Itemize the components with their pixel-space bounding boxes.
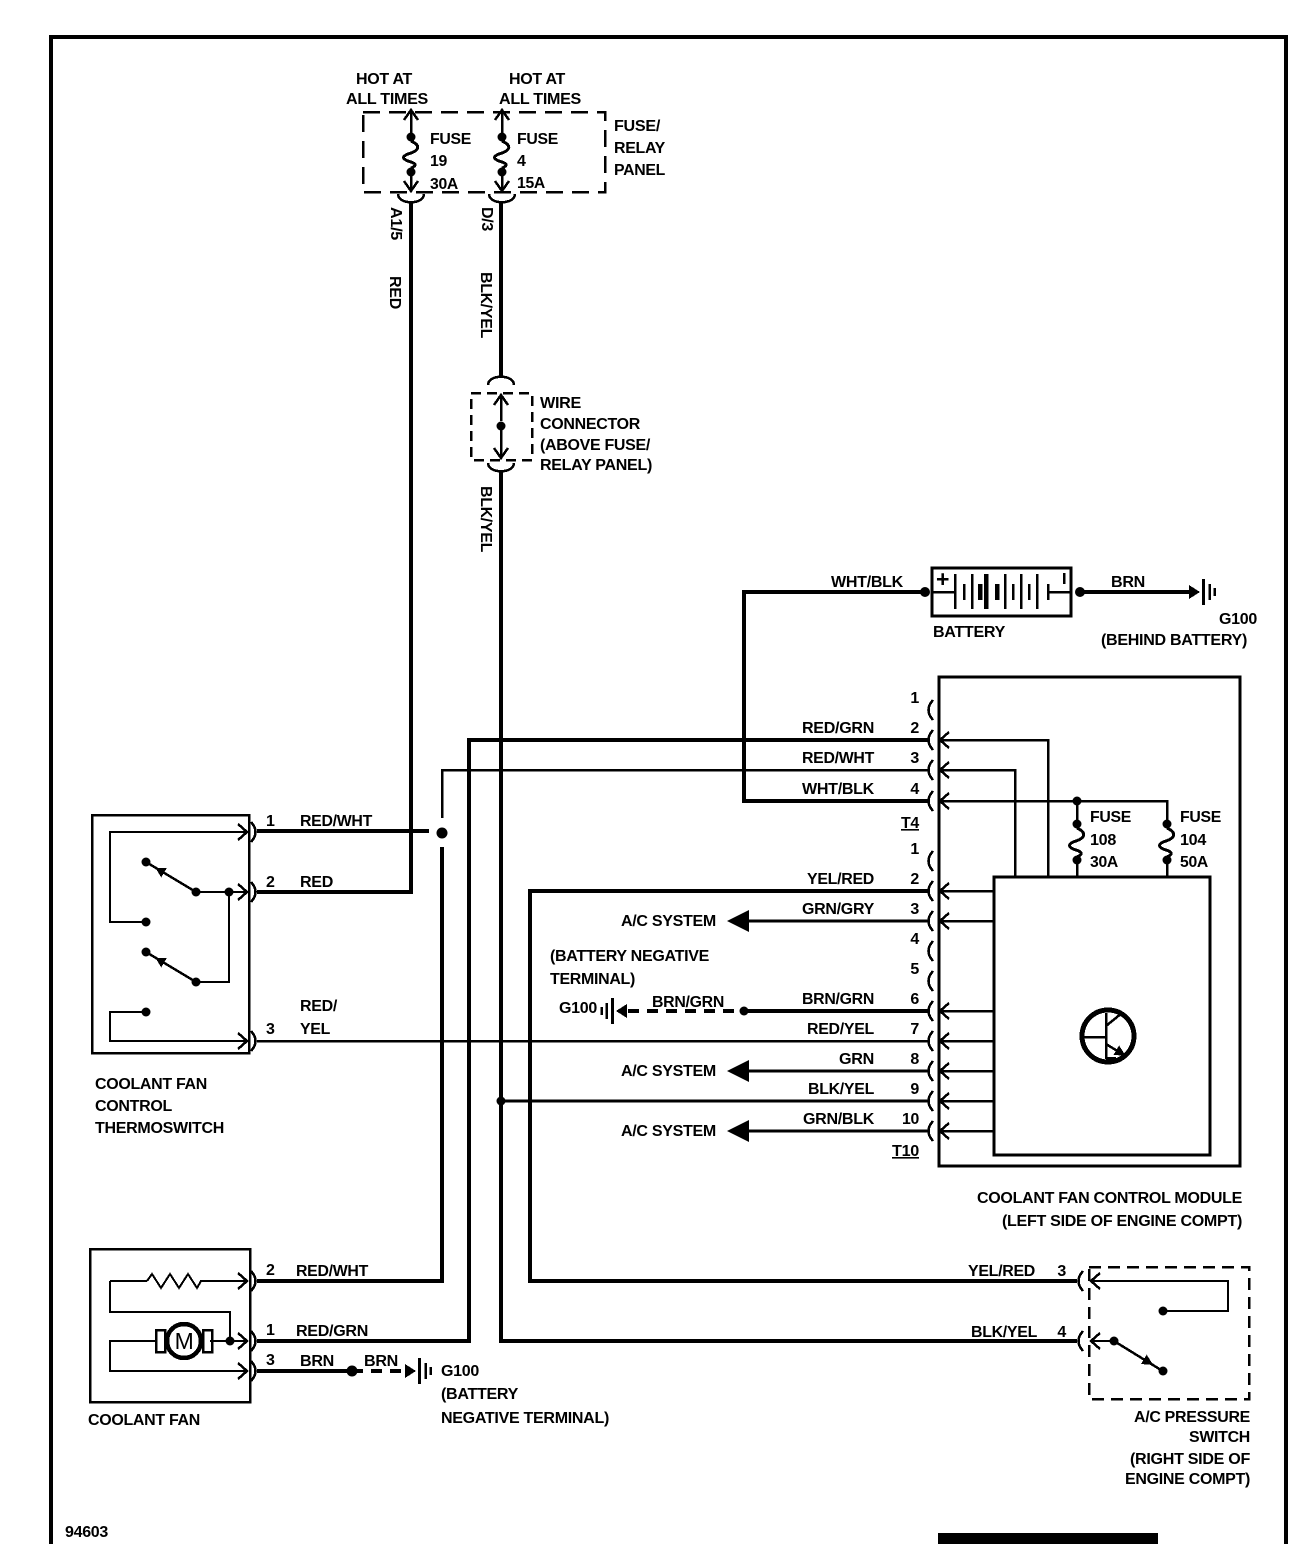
ground G100 battery negative terminal (module): [616, 1004, 627, 1018]
svg-text:RED/: RED/: [300, 998, 338, 1015]
svg-text:1: 1: [266, 813, 275, 830]
svg-text:BLK/YEL: BLK/YEL: [971, 1324, 1038, 1341]
svg-text:RELAY: RELAY: [614, 140, 666, 157]
svg-text:A1/5: A1/5: [387, 207, 404, 240]
svg-text:HOT AT: HOT AT: [356, 71, 413, 88]
wire RED/WHT junction to T4 pin 3: [442, 770, 928, 818]
svg-text:4: 4: [1057, 1324, 1066, 1341]
A/C pressure switch arm: [1110, 1337, 1119, 1346]
wire YEL/RED T10 pin2 to A/C pressure switch pin 3: [530, 891, 1077, 1281]
svg-text:A/C SYSTEM: A/C SYSTEM: [621, 1063, 716, 1080]
svg-text:FUSE: FUSE: [1180, 809, 1222, 826]
svg-text:ALL TIMES: ALL TIMES: [499, 91, 582, 108]
svg-text:(LEFT SIDE OF ENGINE COMPT): (LEFT SIDE OF ENGINE COMPT): [1002, 1213, 1242, 1230]
svg-text:M: M: [175, 1328, 194, 1354]
fuse F4 15A: [495, 110, 509, 120]
svg-text:3: 3: [910, 750, 919, 767]
svg-text:RELAY PANEL): RELAY PANEL): [540, 457, 652, 474]
svg-text:RED/WHT: RED/WHT: [300, 813, 373, 830]
svg-text:ENGINE COMPT): ENGINE COMPT): [1125, 1471, 1250, 1488]
svg-text:6: 6: [910, 991, 919, 1008]
svg-text:1: 1: [910, 690, 919, 707]
svg-text:BRN/GRN: BRN/GRN: [652, 994, 724, 1011]
svg-text:4: 4: [910, 781, 919, 798]
ground G100 behind battery: [1189, 585, 1200, 599]
svg-text:94603: 94603: [65, 1524, 108, 1541]
thermoswitch pin 2 socket: [238, 884, 247, 900]
svg-text:YEL/RED: YEL/RED: [968, 1263, 1035, 1280]
svg-text:2: 2: [910, 871, 919, 888]
thermoswitch pin 3 internal wire: [142, 1008, 151, 1017]
coolant fan control thermoswitch box: [92, 815, 249, 1053]
svg-text:BLK/YEL: BLK/YEL: [477, 486, 494, 553]
fuse/relay panel dashed box: [363, 112, 605, 192]
wire RED/GRN coolant fan pin1 to T4 pin 2: [257, 740, 928, 1341]
transistor (inside module): [1082, 1010, 1134, 1062]
thermoswitch pin 1 internal wire: [110, 832, 247, 922]
svg-text:2: 2: [266, 874, 275, 891]
thermoswitch pin2 to switch2 wire: [196, 892, 247, 982]
wire BRN/GRN dashed ground to junction: [628, 1009, 744, 1013]
connector cup below fuse 19: [398, 194, 424, 202]
battery: [932, 568, 1071, 616]
svg-text:3: 3: [1057, 1263, 1066, 1280]
wire RED/WHT junction to coolant fan pin 2: [257, 847, 442, 1281]
svg-text:1: 1: [910, 841, 919, 858]
module internal wire from T4 pin 3: [940, 770, 1015, 877]
thermoswitch junction dot pin 2: [225, 888, 234, 897]
coolant fan pin 2 socket: [238, 1273, 247, 1289]
A/C system arrow (GRN/BLK): [727, 1120, 749, 1142]
connector T4 pin sockets: [929, 700, 934, 720]
svg-text:BRN: BRN: [364, 1353, 398, 1370]
svg-text:5: 5: [910, 961, 919, 978]
svg-text:30A: 30A: [430, 176, 459, 193]
A/C pressure switch pin4 wire: [1091, 1340, 1110, 1342]
svg-text:FUSE/: FUSE/: [614, 118, 661, 135]
ground G100 battery negative terminal (fan): [405, 1364, 416, 1378]
svg-text:(BEHIND BATTERY): (BEHIND BATTERY): [1101, 632, 1247, 649]
svg-text:PANEL: PANEL: [614, 162, 666, 179]
svg-text:G100: G100: [559, 1000, 597, 1017]
svg-text:19: 19: [430, 153, 447, 170]
svg-text:BATTERY: BATTERY: [933, 624, 1006, 641]
svg-text:COOLANT FAN CONTROL MODULE: COOLANT FAN CONTROL MODULE: [977, 1190, 1243, 1207]
svg-text:RED/YEL: RED/YEL: [807, 1021, 875, 1038]
wire BLK/YEL junction to T10 pin 9: [501, 1100, 928, 1103]
svg-text:RED: RED: [386, 276, 403, 309]
module internal wire from T4 pin 4 to fuses: [940, 801, 1167, 821]
coolant fan box: [90, 1249, 250, 1402]
wire GRN/GRY to A/C system: [749, 920, 928, 923]
wire BLK/YEL from fuse 4 to wire connector: [499, 203, 503, 377]
A/C system arrow (GRN/GRY): [727, 910, 749, 932]
svg-text:(BATTERY: (BATTERY: [441, 1386, 519, 1403]
fuse F19 30A: [404, 110, 418, 120]
svg-text:30A: 30A: [1090, 854, 1119, 871]
svg-text:3: 3: [910, 901, 919, 918]
svg-text:A/C SYSTEM: A/C SYSTEM: [621, 913, 716, 930]
wire RED/WHT thermoswitch pin1 to junction: [257, 829, 429, 833]
black bar bottom: [938, 1533, 1158, 1544]
junction dot fuse 108 feed: [1073, 797, 1082, 806]
svg-text:7: 7: [910, 1021, 919, 1038]
fuse 104 50A: [1163, 820, 1172, 829]
svg-text:GRN/GRY: GRN/GRY: [802, 901, 875, 918]
fuse 108 30A: [1076, 801, 1079, 821]
svg-text:WHT/BLK: WHT/BLK: [831, 574, 904, 591]
svg-text:104: 104: [1180, 832, 1206, 849]
svg-text:(ABOVE FUSE/: (ABOVE FUSE/: [540, 437, 651, 454]
svg-text:10: 10: [902, 1111, 919, 1128]
wire BRN battery to ground: [1080, 590, 1189, 594]
coolant fan control module outer box: [939, 677, 1240, 1166]
svg-text:2: 2: [266, 1262, 275, 1279]
wire GRN to A/C system: [749, 1070, 928, 1073]
svg-text:CONTROL: CONTROL: [95, 1098, 173, 1115]
svg-text:(BATTERY NEGATIVE: (BATTERY NEGATIVE: [550, 948, 710, 965]
svg-text:BLK/YEL: BLK/YEL: [477, 272, 494, 339]
svg-text:(RIGHT SIDE OF: (RIGHT SIDE OF: [1130, 1451, 1251, 1468]
svg-text:FUSE: FUSE: [1090, 809, 1132, 826]
wire WHT/BLK battery to module T4 pin 4: [744, 592, 928, 801]
A/C pressure switch pin 4 socket: [1079, 1331, 1084, 1351]
coolant fan resistor: [110, 1280, 147, 1282]
svg-text:YEL: YEL: [300, 1021, 331, 1038]
connector cup below fuse 4: [489, 194, 515, 202]
svg-text:15A: 15A: [517, 175, 546, 192]
wire BRN coolant fan to ground: [257, 1369, 352, 1373]
svg-text:RED/GRN: RED/GRN: [296, 1323, 368, 1340]
module internal wire from T4 pin 2: [940, 740, 1048, 877]
coolant fan motor M: [167, 1324, 201, 1358]
svg-text:FUSE: FUSE: [517, 131, 559, 148]
svg-text:RED: RED: [300, 874, 333, 891]
svg-text:CONNECTOR: CONNECTOR: [540, 416, 641, 433]
A/C pressure switch dashed box: [1089, 1267, 1249, 1399]
svg-text:BRN: BRN: [1111, 574, 1145, 591]
svg-text:WHT/BLK: WHT/BLK: [802, 781, 875, 798]
svg-text:THERMOSWITCH: THERMOSWITCH: [95, 1120, 224, 1137]
thermoswitch pin 1 socket: [238, 824, 247, 840]
svg-text:RED/GRN: RED/GRN: [802, 720, 874, 737]
wire RED/YEL thermoswitch pin3 to T10 pin 7: [257, 1040, 928, 1043]
svg-text:A/C PRESSURE: A/C PRESSURE: [1134, 1409, 1251, 1426]
coolant fan internal wiring: [110, 1281, 230, 1341]
connector T10 pin sockets: [929, 851, 934, 871]
svg-text:COOLANT FAN: COOLANT FAN: [95, 1076, 207, 1093]
thermoswitch contact dot (pin1 rail): [142, 918, 151, 927]
wire BLK/YEL to A/C pressure switch pin 4: [501, 472, 1077, 1341]
wire GRN/BLK to A/C system: [749, 1130, 928, 1133]
svg-text:T10: T10: [892, 1143, 919, 1160]
coolant fan pin 3 socket: [238, 1363, 247, 1379]
thermoswitch pin 3 socket: [238, 1033, 247, 1049]
A/C pressure switch internal wire pin 3: [1091, 1281, 1228, 1311]
A/C pressure switch contact dot: [1159, 1307, 1168, 1316]
svg-text:NEGATIVE TERMINAL): NEGATIVE TERMINAL): [441, 1410, 609, 1427]
wire BRN/GRN to T10 pin 6: [744, 1009, 928, 1013]
svg-text:RED/WHT: RED/WHT: [296, 1263, 369, 1280]
battery terminal dot positive: [920, 587, 930, 597]
battery terminal dot negative: [1075, 587, 1085, 597]
svg-text:A/C SYSTEM: A/C SYSTEM: [621, 1123, 716, 1140]
svg-text:+: +: [936, 566, 949, 592]
junction dot RED/WHT: [437, 828, 448, 839]
svg-text:BRN: BRN: [300, 1353, 334, 1370]
svg-text:HOT AT: HOT AT: [509, 71, 566, 88]
coolant fan junction dot: [226, 1337, 235, 1346]
module inner box: [994, 877, 1210, 1155]
thermoswitch switch 2: [142, 948, 151, 957]
svg-text:50A: 50A: [1180, 854, 1209, 871]
svg-text:SWITCH: SWITCH: [1189, 1429, 1250, 1446]
junction dot BRN/GRN: [740, 1007, 749, 1016]
wire connector (above fuse/relay panel): [488, 377, 514, 385]
svg-text:9: 9: [910, 1081, 919, 1098]
svg-text:D/3: D/3: [478, 207, 495, 231]
coolant fan pin 1 socket: [238, 1333, 247, 1349]
svg-text:108: 108: [1090, 832, 1116, 849]
svg-text:ALL TIMES: ALL TIMES: [346, 91, 429, 108]
svg-text:T4: T4: [901, 815, 919, 832]
svg-text:3: 3: [266, 1352, 275, 1369]
svg-text:COOLANT FAN: COOLANT FAN: [88, 1412, 200, 1429]
svg-text:BLK/YEL: BLK/YEL: [808, 1081, 875, 1098]
A/C system arrow (GRN): [727, 1060, 749, 1082]
svg-text:2: 2: [910, 720, 919, 737]
wire BRN dashed to ground: [352, 1369, 402, 1373]
junction dot BRN: [347, 1366, 358, 1377]
svg-text:BRN/GRN: BRN/GRN: [802, 991, 874, 1008]
svg-text:4: 4: [517, 153, 526, 170]
thermoswitch switch 1: [142, 858, 151, 867]
svg-text:GRN: GRN: [839, 1051, 874, 1068]
svg-text:G100: G100: [441, 1363, 479, 1380]
A/C pressure switch pin 3 socket: [1079, 1271, 1084, 1291]
svg-text:4: 4: [910, 931, 919, 948]
svg-text:WIRE: WIRE: [540, 395, 582, 412]
svg-text:YEL/RED: YEL/RED: [807, 871, 874, 888]
svg-text:1: 1: [266, 1322, 275, 1339]
junction dot BLK/YEL / T10 pin 9: [497, 1097, 506, 1106]
svg-text:RED/WHT: RED/WHT: [802, 750, 875, 767]
module internal wires T10 pins to inner box: [940, 890, 994, 893]
svg-text:8: 8: [910, 1051, 919, 1068]
wire RED vertical: [257, 203, 411, 892]
svg-text:GRN/BLK: GRN/BLK: [803, 1111, 875, 1128]
svg-text:3: 3: [266, 1021, 275, 1038]
svg-text:TERMINAL): TERMINAL): [550, 971, 635, 988]
svg-text:FUSE: FUSE: [430, 131, 472, 148]
svg-text:G100: G100: [1219, 611, 1257, 628]
